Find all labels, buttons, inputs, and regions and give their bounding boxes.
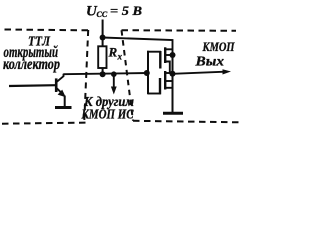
label Ucc = 5 V bbox=[86, 4, 142, 20]
wire branch arrow down to other CMOS ICs bbox=[111, 74, 117, 94]
wire TTL input to base bbox=[9, 84, 56, 87]
label K drugim KMOP IS bbox=[81, 95, 135, 122]
label TTL open collector bbox=[3, 35, 60, 74]
node junction Ucc rail bbox=[100, 35, 106, 41]
svg-text:КМОП: КМОП bbox=[202, 40, 236, 54]
CMOS box dashed outline bbox=[122, 30, 240, 122]
wire CMOS output with arrow bbox=[173, 69, 232, 74]
node resistor bottom junction bbox=[100, 71, 106, 77]
label KMOP Vyh bbox=[194, 40, 235, 70]
transistor VT1 PMOS channel bbox=[164, 47, 166, 63]
node PMOS source supply bbox=[170, 52, 176, 58]
resistor Rx body bbox=[98, 46, 106, 68]
node branch to other CMOS bbox=[111, 71, 117, 77]
ground CMOS bbox=[163, 112, 183, 115]
svg-text:CC: CC bbox=[97, 10, 108, 19]
wire main horizontal node line bbox=[63, 73, 148, 74]
wire CMOS gate bracket bbox=[147, 51, 161, 95]
transistor Q1 base bar bbox=[55, 78, 58, 92]
wire resistor bottom lead bbox=[102, 68, 104, 74]
wire emitter to ground bbox=[64, 96, 66, 107]
transistor VT1 PMOS terminals bbox=[165, 49, 173, 74]
transistor VT2 NMOS gate bar bbox=[159, 78, 161, 94]
ground TTL emitter bbox=[55, 106, 72, 109]
svg-text:= 5 В: = 5 В bbox=[110, 4, 142, 18]
transistor VT1 PMOS gate bar bbox=[159, 51, 161, 69]
wire supply horizontal to CMOS bbox=[103, 38, 173, 56]
TTL box dashed outline bbox=[2, 30, 88, 124]
transistor VT2 NMOS terminals bbox=[165, 73, 173, 88]
wire CMOS right rail bbox=[172, 55, 174, 112]
svg-text:Вых: Вых bbox=[194, 55, 224, 70]
svg-text:R: R bbox=[108, 45, 118, 60]
node CMOS output bbox=[170, 71, 176, 77]
node CMOS gate input bbox=[144, 70, 150, 76]
transistor Q1 emitter with arrow bbox=[57, 88, 66, 97]
transistor Q1 collector bbox=[57, 74, 64, 82]
svg-text:коллектор: коллектор bbox=[3, 56, 60, 73]
svg-text:КМОП ИС: КМОП ИС bbox=[81, 106, 135, 121]
transistor VT2 NMOS channel bbox=[164, 71, 166, 90]
svg-text:x: x bbox=[117, 52, 123, 62]
wire supply vertical from Ucc label bbox=[102, 20, 104, 48]
label Rx bbox=[108, 45, 123, 62]
